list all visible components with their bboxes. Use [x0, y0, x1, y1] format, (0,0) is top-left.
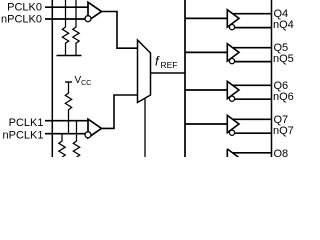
VCC rail symbol [65, 81, 72, 83]
wire bus to driver U3 [185, 17, 227, 19]
wire nQ7 [235, 132, 272, 134]
wire bus to driver U5 [185, 89, 227, 91]
wire nPCLK1 [45, 133, 85, 135]
wire nQ5 [235, 61, 272, 63]
node label fREF [155, 54, 178, 70]
bubble on U2 inverting input [85, 132, 91, 138]
resistor R1 (PCLK0 pulldown) [62, 0, 68, 56]
wire PCLK0 [45, 6, 89, 8]
resistor R3 (VCC pullup) [65, 82, 71, 134]
bubble on U3 inverted output [229, 25, 234, 30]
svg-text:nQ5: nQ5 [273, 53, 294, 65]
wire Q7 [233, 118, 272, 120]
svg-text:PCLK0: PCLK0 [7, 2, 42, 14]
resistor R4 (PCLK1 pulldown) [73, 121, 79, 158]
output driver U4 (Q5/nQ5) [227, 44, 239, 61]
wire Q8 [233, 152, 272, 154]
input receiver U2 (PCLK1 differential buffer) [88, 119, 102, 138]
mux (clock reference select) [138, 40, 151, 103]
output driver U5 (Q6/nQ6) [227, 81, 239, 98]
wire nQ4 [235, 27, 272, 29]
distribution bus (net fREF) [184, 0, 186, 157]
input receiver U1 (PCLK0 differential buffer) [88, 2, 102, 21]
output driver U3 (Q4/nQ4) [227, 10, 239, 27]
wire nPCLK0 [45, 18, 85, 20]
wire Q5 [233, 47, 272, 49]
wire U2 output to mux lower input [102, 95, 138, 128]
bubble on U5 inverted output [229, 96, 234, 101]
output driver U7 (Q8, clipped at figure bottom) [227, 149, 239, 158]
left chip border [51, 0, 53, 157]
svg-text:nQ6: nQ6 [273, 91, 294, 103]
wire bus to driver U4 [185, 51, 227, 53]
bubble on U1 inverting input [85, 16, 91, 22]
wire bus to driver U6 [185, 123, 227, 125]
svg-text:PCLK1: PCLK1 [9, 117, 44, 129]
svg-text:f: f [155, 54, 160, 69]
resistor R2 (nPCLK0 pulldown) [73, 0, 79, 56]
ground rail (top input stage) [57, 55, 82, 57]
bubble on U4 inverted output [229, 59, 234, 64]
mux select wire [144, 99, 146, 158]
resistor R5 (nPCLK1 pulldown) [59, 134, 65, 158]
svg-text:nPCLK0: nPCLK0 [1, 13, 42, 25]
svg-text:nQ4: nQ4 [273, 19, 294, 31]
wire nQ6 [235, 98, 272, 100]
wire U1 output to mux upper input [102, 12, 138, 49]
right chip border [271, 0, 273, 157]
wire Q6 [233, 84, 272, 86]
svg-text:VCC: VCC [75, 75, 92, 87]
wire Q4 [233, 13, 272, 15]
output driver U6 (Q7/nQ7) [227, 115, 239, 132]
wire mux output fREF [151, 72, 186, 74]
svg-text:nPCLK1: nPCLK1 [3, 130, 44, 142]
svg-text:nQ7: nQ7 [273, 125, 294, 137]
svg-text:Q8: Q8 [274, 148, 289, 157]
bubble on U6 inverted output [229, 130, 234, 135]
svg-text:REF: REF [161, 60, 178, 70]
wire PCLK1 [45, 120, 89, 122]
